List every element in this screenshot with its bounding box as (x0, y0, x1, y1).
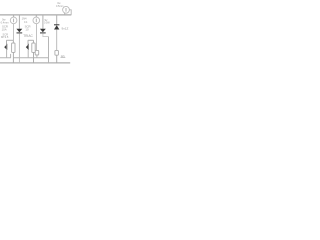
wire M1 right loop (69, 10, 71, 15)
wire R2 to ground rail (33, 52, 35, 63)
wire M1 to rail (64, 13, 66, 15)
wire SCR2 to sub rail (27, 50, 29, 58)
diode D1 (16, 29, 22, 33)
wire R1 top (12, 40, 14, 43)
zener Z1 (54, 24, 59, 26)
wire junction to SCR1 (6, 40, 8, 45)
node junction cell1 (6, 39, 13, 41)
wire down to ground rail (48, 37, 50, 63)
thyristor SCR1 (4, 45, 6, 50)
wire Z1 to R4 (56, 30, 58, 51)
bottom ground rail (0, 62, 70, 64)
resistor R2 box (32, 43, 35, 52)
svg-text:TRIAC: TRIAC (23, 34, 33, 38)
wire stub rail to I1 (13, 15, 15, 17)
wire stub rail to D1 (18, 15, 20, 29)
node junction cell2 (28, 39, 34, 41)
current source I1 (10, 17, 17, 24)
wire stub rail to I2 (35, 15, 37, 17)
sub rail left segment (0, 57, 11, 59)
wire R4 to ground rail (56, 55, 58, 63)
wire SCR1 to sub rail (6, 50, 8, 58)
wire R3 to sub rail (36, 55, 38, 58)
wire stub rail to D2 (42, 15, 44, 29)
svg-text:0.4: 0.4 (24, 21, 28, 24)
svg-text:1N4: 1N4 (22, 16, 27, 20)
wire junction to SCR2 (27, 40, 29, 45)
wire R2 top (33, 40, 35, 43)
svg-text:10A: 10A (2, 27, 7, 31)
wire D1 to ground rail (18, 33, 20, 63)
svg-text:MT2.5: MT2.5 (1, 35, 9, 39)
current source I2 (33, 17, 40, 24)
thyristor SCR2 (26, 45, 28, 50)
top rail (0, 14, 71, 16)
meter M1 (63, 6, 70, 13)
diode D2 (40, 29, 46, 33)
wire I1 to junction (13, 24, 15, 41)
svg-text:0.5mm: 0.5mm (56, 5, 63, 8)
wire I2 down to R3 (36, 24, 38, 51)
wire R1 to ground rail (12, 52, 14, 63)
svg-text:0.5W: 0.5W (44, 22, 50, 25)
svg-text:10: 10 (25, 27, 29, 31)
stub node at x10.5 (10, 54, 12, 58)
resistor R4 box (55, 50, 59, 55)
resistor R3 box (35, 50, 39, 55)
wire stub rail to Z1 (56, 15, 58, 25)
svg-text:9v1Z: 9v1Z (62, 27, 69, 31)
wire D2 elbow (43, 33, 49, 36)
resistor R1 box (12, 43, 15, 52)
sub rail main segment (13, 57, 48, 59)
